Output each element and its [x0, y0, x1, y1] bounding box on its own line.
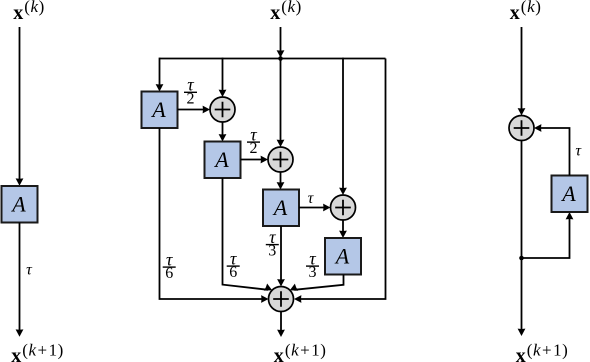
wire SB to x^(k+1) (middle) [277, 312, 285, 338]
wire feedback junction to A (right) [522, 212, 574, 258]
svg-text:x: x [510, 2, 520, 24]
svg-text:3: 3 [309, 264, 317, 281]
svg-text:τ: τ [308, 190, 315, 207]
svg-text:(k+1): (k+1) [285, 340, 326, 359]
wire A2 down and diagonal to adder SB [223, 178, 274, 294]
svg-text:2: 2 [187, 90, 195, 107]
block A1 [142, 92, 178, 129]
svg-text:6: 6 [165, 265, 173, 282]
node x^(k+1) left [11, 340, 64, 362]
node x^(k+1) middle [274, 340, 327, 362]
svg-text:τ: τ [26, 262, 33, 279]
svg-text:(k): (k) [24, 0, 45, 16]
label tau/3 (near A4) [306, 249, 319, 282]
node x^(k) right [510, 0, 542, 24]
wire A2 to adder S2 [241, 156, 269, 164]
svg-text:x: x [11, 345, 21, 362]
svg-text:x: x [274, 345, 284, 362]
label tau/6 (first) [163, 250, 176, 283]
wire A1 to adder S1 [178, 106, 211, 114]
svg-text:6: 6 [229, 264, 237, 281]
wire A3 down to adder SB [277, 226, 285, 287]
label tau/6 (second) [227, 249, 240, 282]
wire bus to A1 [156, 58, 164, 92]
wire bus down to adder S3 [339, 58, 347, 195]
wire A4 down and diagonal to adder SB [288, 275, 343, 294]
svg-text:(k+1): (k+1) [527, 340, 568, 359]
svg-text:(k): (k) [521, 0, 542, 16]
node x^(k) middle [270, 0, 302, 24]
wire bus right side down and left to adder SB [294, 59, 386, 303]
adder SR [509, 116, 534, 141]
svg-text:A: A [272, 195, 288, 220]
label tau/3 (under A3) [266, 227, 279, 260]
adder S1 [210, 97, 235, 122]
block A4 [325, 238, 361, 275]
adder S3 [331, 195, 356, 220]
svg-text:A: A [10, 192, 26, 217]
wire top bus [160, 58, 386, 60]
wire A3 to adder S3 [299, 204, 331, 212]
adder SB (output sum) [269, 287, 294, 312]
node dot feedback junction [519, 256, 524, 261]
svg-text:x: x [516, 345, 526, 362]
svg-text:(k): (k) [281, 0, 302, 16]
block A (left diagram) [2, 186, 38, 223]
block A (right diagram) [552, 176, 588, 213]
node dot at bus junction [278, 56, 283, 61]
svg-text:A: A [334, 244, 350, 269]
wire SR to x^(k+1) (right) [518, 141, 526, 337]
block A2 [205, 142, 241, 179]
wire S3 to A4 [339, 220, 347, 238]
wire S1 to A2 [219, 122, 227, 142]
svg-text:3: 3 [268, 243, 276, 260]
svg-text:A: A [213, 147, 229, 172]
block A3 [263, 190, 299, 227]
label tau/2 (second) [247, 125, 260, 158]
svg-text:τ: τ [575, 143, 582, 160]
svg-text:A: A [150, 97, 166, 122]
wire bus down to adder S2 [277, 59, 285, 148]
wire S2 to A3 [277, 172, 285, 190]
wire A (right) to adder SR [534, 124, 570, 175]
wire input to A (left) [16, 27, 24, 186]
wire input to adder SR [518, 27, 526, 116]
wire A1 down and right to adder SB [160, 128, 269, 303]
wire bus to adder S1 [219, 58, 227, 97]
svg-text:(k+1): (k+1) [22, 340, 63, 359]
svg-text:x: x [13, 2, 23, 24]
wire A to x^(k+1) (left) [16, 223, 24, 337]
adder S2 [268, 147, 293, 172]
svg-text:A: A [560, 181, 576, 206]
node x^(k) left [13, 0, 45, 24]
wire input down to bus [277, 27, 285, 58]
label tau/2 (first) [184, 75, 197, 108]
svg-text:x: x [270, 2, 280, 24]
node x^(k+1) right [516, 340, 569, 362]
svg-text:2: 2 [250, 140, 258, 157]
